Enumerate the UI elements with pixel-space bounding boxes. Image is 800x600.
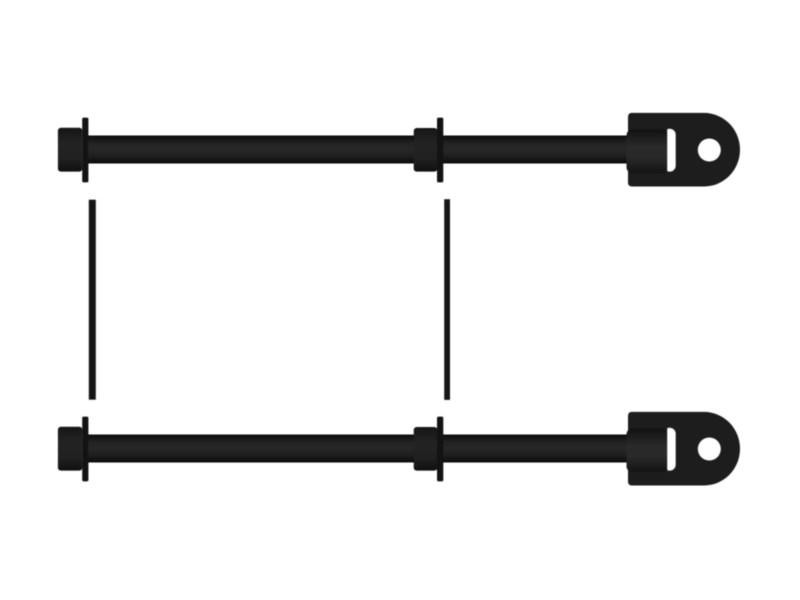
axle head cap (bottom rod, left end): [58, 427, 82, 471]
rod shaft (top): [88, 136, 668, 164]
middle collar (top rod): [414, 128, 438, 172]
slot gap in clevis (bottom, white): [667, 428, 676, 471]
slot gap in clevis (top, white): [667, 129, 676, 172]
clevis tab (bottom rod, right end): [628, 412, 740, 486]
clevis tab (top rod, right end): [628, 113, 740, 187]
middle flange disk (bottom rod): [437, 417, 443, 482]
flange washer (top rod, left end): [82, 118, 88, 183]
axle head cap (top rod, left end): [58, 128, 82, 172]
rod shaft (bottom): [88, 435, 668, 463]
clevis eye hole (bottom, white): [698, 438, 721, 461]
rod sleeve inside clevis (top): [627, 129, 669, 173]
middle collar (bottom rod): [414, 427, 438, 471]
alignment pin right: [444, 199, 450, 400]
middle flange disk (top rod): [437, 118, 443, 183]
rod sleeve inside clevis (bottom): [627, 428, 669, 472]
clevis eye hole (top, white): [698, 139, 721, 162]
alignment pin left: [89, 200, 96, 400]
flange washer (bottom rod, left end): [82, 417, 88, 482]
